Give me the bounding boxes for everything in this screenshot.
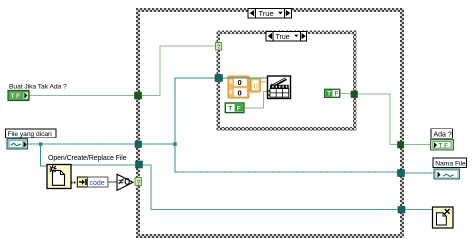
wire error dashed from Open VI to code unbundle xyxy=(71,182,78,184)
svg-text:T: T xyxy=(228,106,232,113)
svg-text:code: code xyxy=(90,180,105,187)
label Open/Create/Replace File xyxy=(48,155,127,162)
svg-text:Buat Jika Tak Ada ?: Buat Jika Tak Ada ? xyxy=(9,84,67,91)
boolean indicator terminal Ada ? xyxy=(431,140,454,151)
wire path from File yang dicari control xyxy=(28,143,176,145)
selector terminal inner case xyxy=(216,43,222,52)
svg-text:Ada ?: Ada ? xyxy=(434,131,452,138)
label box File yang dicari xyxy=(6,129,57,138)
tunnel path out to Nama File xyxy=(398,170,405,177)
VI icon Close File xyxy=(433,207,454,228)
svg-text:T: T xyxy=(327,92,331,98)
outer case structure border xyxy=(138,10,402,236)
svg-text:File yang dicari: File yang dicari xyxy=(8,131,53,138)
tunnel boolean in on outer left border xyxy=(135,92,142,99)
wire boolean from inner tunnel to Ada ? indicator xyxy=(355,94,431,145)
wire refnum from Open VI to Close File VI xyxy=(71,165,433,210)
array constant 0 0 xyxy=(228,76,249,98)
label box Ada ? xyxy=(431,129,453,139)
wire orange from 0 constant to write VI xyxy=(249,82,266,90)
selector label outer True xyxy=(248,9,292,19)
svg-text:0: 0 xyxy=(238,78,242,87)
svg-text:F: F xyxy=(237,106,241,113)
svg-text:?: ? xyxy=(137,179,141,186)
wire boolean from Buat control to inner case selector xyxy=(29,46,216,96)
boolean constant true xyxy=(325,89,340,97)
unbundle node error code xyxy=(77,177,108,187)
tunnel path on inner left border xyxy=(215,75,223,82)
svg-text:Open/Create/Replace File: Open/Create/Replace File xyxy=(48,155,127,162)
wire path overlay across constants xyxy=(223,77,268,79)
tunnel boolean out on outer right border xyxy=(398,142,404,149)
path control terminal File yang dicari xyxy=(7,139,28,150)
svg-text:0: 0 xyxy=(238,89,242,98)
inner case structure border xyxy=(218,32,355,129)
svg-text:True: True xyxy=(259,9,274,18)
path indicator terminal Nama File xyxy=(434,169,460,179)
label Buat Jika Tak Ada ? xyxy=(9,84,67,91)
junction path wire B xyxy=(173,142,177,146)
tunnel refnum on outer left border xyxy=(136,161,143,168)
tunnel boolean out on inner right border xyxy=(351,91,358,98)
svg-text:F: F xyxy=(335,92,339,98)
tunnel refnum out to Close File xyxy=(398,207,405,214)
svg-text:True: True xyxy=(276,34,290,41)
wire boolean from inner TF constant to inner tunnel xyxy=(340,93,354,95)
svg-text:T F: T F xyxy=(11,94,20,100)
wire path branch up into inner case tunnel xyxy=(175,78,268,144)
label box Nama File xyxy=(433,158,467,168)
selector label inner True xyxy=(266,32,307,42)
wire path branch down to Nama File indicator xyxy=(175,144,434,173)
wire path branch down to Open/Create/Replace VI xyxy=(41,144,48,166)
VI icon Write To Spreadsheet File xyxy=(268,76,291,99)
svg-text:0: 0 xyxy=(254,82,258,91)
selector terminal outer case xyxy=(135,178,142,187)
boolean constant false xyxy=(225,103,244,113)
wire boolean from TF false constant to write VI xyxy=(244,92,268,109)
boolean control terminal Buat Jika Tak Ada xyxy=(8,91,29,101)
svg-text:Nama File: Nama File xyxy=(435,161,466,168)
VI icon Open/Create/Replace File xyxy=(47,165,71,189)
comparison not equal to zero xyxy=(117,174,133,190)
numeric constant 0 xyxy=(250,78,260,92)
svg-text:T F: T F xyxy=(439,144,448,150)
wire int32 code to comparison xyxy=(108,181,118,183)
junction path wire A xyxy=(39,142,43,146)
tunnel path in on outer left border xyxy=(135,141,142,148)
